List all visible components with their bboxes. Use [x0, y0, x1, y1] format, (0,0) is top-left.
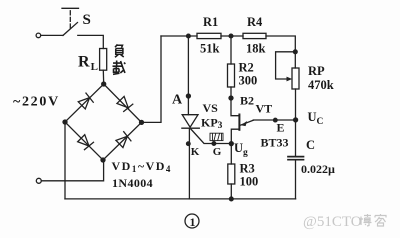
wire Ug down to R3: [230, 144, 232, 164]
diode VD3 (bottom-left arm): [77, 134, 93, 150]
resistor RL: [100, 49, 107, 71]
label fu (负): [115, 44, 124, 57]
node R3 bottom: [229, 197, 233, 201]
svg-text:UC: UC: [308, 110, 324, 127]
node G marker: [212, 142, 216, 146]
svg-text:VD1~VD4: VD1~VD4: [112, 159, 172, 174]
wire: [78, 35, 104, 48]
resistor R4: [243, 33, 266, 38]
svg-text:1: 1: [190, 215, 196, 229]
wire B2 lead: [231, 98, 239, 116]
wire cathode down: [188, 128, 190, 199]
svg-text:BT33: BT33: [261, 136, 289, 150]
terminal bottom-left: [36, 178, 41, 183]
watermark bo (博): [359, 214, 372, 226]
wire left vertex down: [64, 122, 66, 199]
wire gate: [191, 129, 232, 144]
node bottom vertex: [101, 158, 105, 162]
label B1: [210, 133, 223, 140]
wire bridge bottom-left edge: [65, 122, 103, 160]
svg-text:R4: R4: [247, 15, 263, 29]
svg-text:VT: VT: [256, 102, 273, 116]
wire right vertex to riser: [142, 36, 162, 122]
wire RP down to E node: [295, 89, 297, 120]
svg-text:~220V: ~220V: [13, 95, 60, 110]
wire bridge top-left edge: [65, 84, 104, 122]
svg-text:A: A: [172, 93, 183, 108]
wire: [230, 87, 232, 98]
svg-text:18k: 18k: [246, 42, 266, 56]
node left vertex: [63, 120, 67, 124]
svg-text:K: K: [191, 146, 200, 158]
wire capacitor down: [295, 161, 297, 199]
thyristor VS: [182, 115, 198, 128]
node right vertex: [140, 120, 144, 124]
svg-text:@51CTO: @51CTO: [303, 214, 362, 230]
node B2: [229, 96, 233, 100]
node K marker: [187, 142, 191, 146]
wire RP wiper loop: [276, 52, 296, 79]
svg-text:VS: VS: [203, 101, 219, 115]
transistor VT emitter: [240, 120, 253, 125]
diode VD4 (bottom-right arm): [115, 132, 131, 148]
svg-text:RP: RP: [308, 64, 325, 78]
svg-text:G: G: [213, 146, 222, 158]
wire: [41, 34, 63, 36]
svg-text:100: 100: [240, 175, 259, 189]
svg-text:Ug: Ug: [234, 141, 248, 158]
node R2 branch: [229, 34, 233, 38]
wire R2 branch down: [230, 36, 232, 64]
capacitor C: [288, 156, 304, 158]
terminal top-left: [36, 33, 41, 38]
wire top rail right: [266, 36, 295, 68]
wire: [221, 35, 243, 37]
svg-text:51k: 51k: [200, 42, 220, 56]
node E marker: [274, 118, 278, 122]
wire E node down to capacitor: [295, 120, 297, 156]
wire emitter to right riser: [253, 119, 295, 121]
svg-text:1N4004: 1N4004: [112, 176, 153, 190]
svg-text:RL: RL: [78, 54, 98, 74]
wire: [230, 184, 232, 199]
svg-text:R1: R1: [203, 15, 218, 29]
wire bridge top-right edge: [104, 84, 142, 122]
wire bottom rail: [65, 198, 296, 200]
diode VD2 (top-right arm): [116, 96, 132, 112]
node top vertex of bridge: [102, 82, 106, 86]
watermark ke (客): [375, 214, 386, 226]
switch S: [63, 23, 78, 36]
wire top rail left: [161, 35, 197, 37]
svg-text:E: E: [277, 121, 285, 135]
wire from bottom terminal to bridge bottom vertex: [41, 160, 103, 181]
node emitter junction: [294, 118, 298, 122]
node Ug: [229, 142, 233, 146]
svg-text:300: 300: [239, 74, 258, 88]
transistor VT base bar: [238, 115, 240, 130]
svg-text:C: C: [306, 138, 315, 152]
svg-text:R3: R3: [240, 162, 255, 176]
svg-text:R2: R2: [239, 61, 254, 75]
potentiometer RP: [292, 68, 299, 89]
wire B1 lead: [231, 129, 239, 143]
wire: [102, 70, 104, 84]
svg-text:KP3: KP3: [201, 116, 223, 132]
diode VD1 (top-left arm): [78, 93, 94, 109]
resistor R1: [197, 33, 221, 38]
resistor R2: [228, 64, 235, 87]
svg-text:B2: B2: [240, 94, 254, 108]
node RP wiper tap: [293, 50, 297, 54]
svg-text:470k: 470k: [308, 78, 334, 92]
node A: [186, 94, 190, 98]
wire bridge bottom-right edge: [103, 122, 142, 160]
node A branch: [187, 34, 191, 38]
svg-text:0.022µ: 0.022µ: [301, 162, 335, 176]
wire node A down to VS: [187, 36, 189, 115]
circled 1: [185, 214, 199, 228]
resistor R3: [228, 164, 235, 184]
svg-text:S: S: [83, 12, 91, 28]
label zai (载): [113, 61, 126, 75]
